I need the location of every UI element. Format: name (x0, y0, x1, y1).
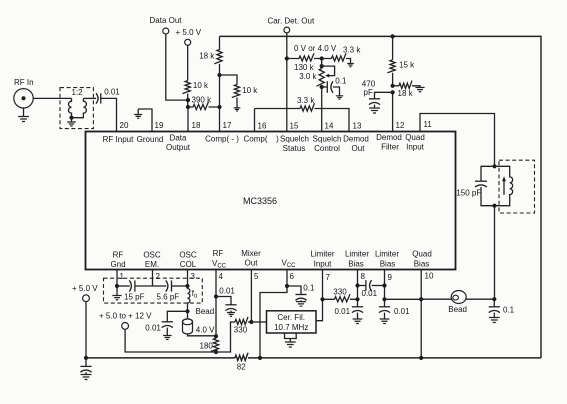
node cardet/130k (285, 56, 289, 60)
svg-text:Out: Out (352, 144, 366, 153)
svg-text:Status: Status (283, 144, 306, 153)
svg-text:330: 330 (234, 325, 248, 334)
op IC U1 MC3356 outline (86, 132, 456, 270)
svg-text:6: 6 (290, 272, 295, 281)
ground (pin 19) (134, 109, 142, 118)
svg-text:15 pF: 15 pF (124, 292, 145, 301)
terminal +5.0 V (bottom) (72, 284, 98, 302)
capacitor C7 5.6 pF (153, 280, 188, 301)
potentiometer R8 3.0 k (299, 59, 334, 88)
svg-text:3: 3 (191, 272, 196, 281)
pin 14 Squelch Control (313, 122, 342, 154)
capacitor C8 0.01 (osc supply) (145, 311, 187, 335)
svg-text:12: 12 (396, 121, 405, 130)
node pot wiper top (320, 64, 324, 68)
svg-text:Gnd: Gnd (110, 260, 125, 269)
svg-text:Limiter: Limiter (345, 250, 369, 259)
svg-text:17: 17 (223, 121, 232, 130)
node top rail / 15 k (391, 34, 395, 38)
wire pin17 column (219, 75, 221, 107)
capacitor C10 0.1 (Vcc) (287, 284, 315, 301)
label 1:2 (72, 88, 84, 97)
label Bead (196, 307, 215, 316)
svg-text:15 k: 15 k (399, 61, 415, 70)
ferrite bead FB2 (448, 291, 467, 315)
svg-text:COL: COL (180, 260, 197, 269)
ground (C10) (296, 302, 306, 307)
resistor R10 15 k (387, 36, 415, 85)
node pot bottom / 0.1 cap (320, 85, 324, 89)
ground (C9) (227, 313, 235, 317)
ground (FL1) (285, 342, 296, 347)
svg-text:4: 4 (219, 272, 224, 281)
svg-text:3.3 k: 3.3 k (343, 46, 361, 55)
svg-text:10: 10 (425, 272, 434, 281)
wire Car Det to pin 15 (286, 33, 288, 132)
wire +5-12V to node (125, 329, 216, 352)
label 4.0 V (196, 326, 215, 335)
svg-text:Bead: Bead (448, 305, 467, 314)
node pin 7 (320, 297, 324, 301)
ground (C14) (489, 318, 500, 323)
ground (0.1 squelch) (336, 96, 343, 99)
label MC3356 (243, 196, 277, 206)
svg-text:Limiter: Limiter (310, 250, 334, 259)
node pin 3 / coil (185, 284, 189, 288)
ground (18 k demod) (415, 88, 424, 92)
ceramic filter FL1 box (267, 311, 317, 333)
pin 15 Squelch Status (280, 122, 309, 154)
svg-text:EM.: EM. (145, 260, 159, 269)
node 15k/18k (391, 84, 395, 88)
pin 16 Comp(+) (243, 109, 279, 144)
node rail pin10 (419, 356, 423, 360)
wire VCC top rail (220, 36, 542, 358)
svg-text:RF: RF (213, 249, 224, 258)
node pin 8 top (355, 283, 359, 287)
svg-text:Quad: Quad (412, 250, 432, 259)
svg-text:MC3356: MC3356 (243, 196, 277, 206)
svg-text:0.01: 0.01 (335, 307, 351, 316)
oscillator dashed box (104, 278, 203, 303)
node pin 9 lower (382, 297, 386, 301)
svg-text:1:2: 1:2 (72, 88, 84, 97)
svg-text:pF: pF (364, 88, 373, 97)
wire Data Out to pin 18 node (166, 34, 188, 100)
svg-text:Limiter: Limiter (375, 250, 399, 259)
pin 6 Vcc (282, 259, 297, 287)
resistor R7 3.3 k (squelch) (322, 46, 362, 64)
svg-text:+ 5.0 to + 12 V: + 5.0 to + 12 V (99, 312, 152, 321)
ground (RF In) (18, 108, 29, 122)
svg-text:19: 19 (155, 121, 164, 130)
svg-text:0.1: 0.1 (503, 305, 515, 314)
node tank bottom (492, 204, 496, 208)
terminal +5.0 to +12 V (99, 312, 152, 330)
svg-text:8: 8 (361, 272, 366, 281)
transformer T1 dashed box (60, 88, 93, 129)
svg-text:2: 2 (156, 272, 161, 281)
svg-text:Squelch: Squelch (280, 135, 309, 144)
svg-text:Filter: Filter (381, 143, 399, 152)
svg-text:Cer. Fil.: Cer. Fil. (277, 313, 305, 322)
pin 12 Demod Filter (376, 92, 405, 151)
capacitor C2 0.1 (squelch) (322, 77, 347, 96)
wire supply node to 330 (216, 322, 235, 352)
terminal Data Out (150, 16, 183, 34)
svg-text:0.01: 0.01 (219, 287, 235, 296)
wire pin4 mid (215, 297, 217, 339)
resistor R5 82 label (237, 363, 246, 372)
capacitor C11 0.01 (pins 8-9) (358, 280, 385, 298)
capacitor C6 15 pF (117, 280, 153, 301)
pin 18 Data Output (166, 107, 201, 152)
svg-text:15: 15 (290, 122, 299, 131)
node 130k/3.3k/pot (320, 56, 324, 60)
resistor R2 390 k (188, 96, 220, 110)
label 0 V or 4.0 V (294, 44, 337, 53)
pin 7 Limiter Input (310, 250, 334, 300)
svg-text:0.01: 0.01 (394, 307, 410, 316)
ground (C8) (163, 336, 172, 340)
node pin17/10k branch (217, 73, 221, 77)
terminal +5.0 V (data) (176, 28, 202, 45)
wire pot to pin 14 (321, 87, 323, 132)
wire pin9 to pin10 column (385, 298, 422, 300)
ground (C12) (353, 319, 363, 324)
svg-text:0.1: 0.1 (303, 284, 315, 293)
svg-text:RF: RF (113, 251, 124, 260)
transformer T1 primary winding (69, 98, 72, 117)
capacitor C3 470 pF (362, 80, 393, 108)
pin 9 Limiter Bias (375, 250, 399, 300)
svg-text:9: 9 (388, 273, 393, 282)
pin 20 RF Input (103, 121, 134, 144)
pin 13 Demod Out (343, 122, 369, 154)
node pin4 / C9 (214, 294, 218, 298)
wire transformer to C1 (83, 97, 96, 99)
svg-text:82: 82 (237, 363, 246, 372)
terminal Car. Det. Out (268, 17, 315, 33)
pin 2 OSC EM (143, 251, 161, 287)
svg-text:Quad: Quad (405, 133, 425, 142)
svg-text:16: 16 (258, 122, 267, 131)
svg-text:10.7 MHz: 10.7 MHz (274, 323, 308, 332)
capacitor C9 0.01 (RF Vcc) (216, 287, 237, 313)
svg-text:OSC: OSC (179, 251, 197, 260)
svg-text:7: 7 (326, 273, 331, 282)
pin 3 OSC COL (179, 251, 197, 287)
node 470 pF (391, 90, 395, 94)
svg-text:18: 18 (192, 121, 201, 130)
ferrite bead FB1 (183, 311, 217, 336)
node 4.0V / pin4 (214, 334, 218, 338)
resistor R6 130 k (287, 53, 322, 72)
svg-text:14: 14 (325, 122, 334, 131)
svg-text:4.0 V: 4.0 V (196, 326, 215, 335)
ground (transformer) (67, 118, 76, 126)
pin 8 Limiter Bias (345, 250, 369, 300)
svg-text:OSC: OSC (143, 251, 161, 260)
node rail pin6 (258, 356, 262, 360)
node pin 1 / 15 pF (115, 284, 119, 288)
svg-text:3.3 k: 3.3 k (297, 96, 315, 105)
svg-text:Car. Det. Out: Car. Det. Out (268, 17, 315, 26)
svg-text:+ 5.0 V: + 5.0 V (176, 28, 202, 37)
svg-text:Comp(: Comp( (243, 135, 267, 144)
pin 19 Ground (137, 109, 164, 144)
wire tank to bead node (494, 206, 496, 300)
svg-text:390 k: 390 k (192, 96, 213, 105)
wire pin6 to rail (260, 286, 287, 358)
svg-text:Ground: Ground (137, 135, 164, 144)
svg-text:Data: Data (170, 134, 187, 143)
wire mixer node to FL1 (251, 321, 266, 323)
resistor R13 330 (mixer) (234, 317, 252, 335)
svg-text:Input: Input (406, 143, 425, 152)
node 180 / supply (214, 350, 218, 354)
svg-text:Out: Out (245, 259, 259, 268)
svg-text:20: 20 (120, 121, 129, 130)
capacitor C13 0.01 (pin 9) (379, 299, 410, 319)
ground (470 pF) (369, 108, 380, 113)
ground (pin 1) (112, 286, 121, 300)
capacitor C14 0.1 (quad) (489, 299, 515, 317)
wire C1 to pin 20 (101, 98, 117, 131)
capacitor C12 0.01 (pin 8) (335, 299, 364, 319)
svg-text:10 k: 10 k (242, 86, 258, 95)
ground (3.3 k squelch) (347, 64, 354, 67)
wire +5V to rail (85, 302, 87, 358)
svg-text:Data Out: Data Out (150, 16, 183, 25)
node rail +5V (84, 356, 88, 360)
resistor R4 10 k (comp) (220, 75, 259, 108)
node pin 8 lower (355, 297, 359, 301)
node pin18/dataout (186, 98, 190, 102)
inductor L2 fo coil (188, 286, 199, 311)
svg-text:Control: Control (314, 144, 340, 153)
ground (supply bypass) (81, 375, 92, 380)
svg-text:Mixer: Mixer (241, 249, 261, 258)
svg-text:Demod: Demod (376, 133, 402, 142)
ground (C13) (380, 319, 390, 324)
svg-text:): ) (276, 135, 279, 144)
capacitor C4 150 pF (456, 166, 494, 205)
node pin17/390k (217, 105, 221, 109)
svg-text:Bias: Bias (414, 260, 430, 269)
tank dashed box (499, 160, 535, 213)
node pin 9 top (382, 283, 386, 287)
node mixer out (249, 320, 253, 324)
svg-text:130 k: 130 k (294, 63, 315, 72)
inductor L1 quad coil (495, 166, 513, 205)
svg-text:3.0 k: 3.0 k (299, 72, 317, 81)
svg-text:Bias: Bias (348, 260, 364, 269)
svg-text:10 k: 10 k (193, 81, 209, 90)
pin 4 RF Vcc (212, 249, 227, 297)
svg-text:330: 330 (333, 288, 347, 297)
svg-text:0.1: 0.1 (335, 77, 347, 86)
pin 10 Quad Bias (412, 250, 434, 359)
svg-text:RF Input: RF Input (103, 135, 134, 144)
svg-text:180: 180 (200, 342, 214, 351)
svg-text:0.01: 0.01 (362, 289, 378, 298)
svg-text:Output: Output (166, 143, 191, 152)
wire VCC bottom rail (86, 353, 541, 361)
node bead top (185, 309, 189, 313)
svg-text:11: 11 (424, 120, 433, 129)
svg-text:Bias: Bias (380, 260, 396, 269)
pin 11 Quad Input wire (405, 114, 494, 167)
capacitor C1 0.01 (RF input) (96, 87, 120, 103)
svg-text:Demod: Demod (343, 135, 369, 144)
node pin18/390k (186, 105, 190, 109)
svg-text:Input: Input (314, 260, 333, 269)
svg-text:18 k: 18 k (398, 89, 414, 98)
ground (10 k comp) (234, 108, 241, 111)
resistor R9 3.3 k (comp to demod) (255, 96, 350, 132)
svg-text:Bead: Bead (196, 307, 215, 316)
node pin10/bead wire (419, 297, 423, 301)
resistor R11 18 k (demod) (393, 81, 420, 98)
svg-text:13: 13 (353, 122, 362, 131)
svg-text:1: 1 (120, 272, 125, 281)
resistor R3 18 k (199, 36, 222, 75)
svg-text:+ 5.0 V: + 5.0 V (72, 284, 98, 293)
resistor R14 330 (limiter) (323, 288, 358, 302)
pin 1 RF Gnd (110, 251, 125, 287)
svg-text:150 pF: 150 pF (456, 188, 481, 197)
node transformer common (69, 116, 73, 120)
svg-text:0.01: 0.01 (104, 87, 120, 96)
wire bead (quad bias) (421, 298, 494, 300)
transformer T1 secondary winding (72, 98, 87, 117)
resistor R1 10 k (182, 45, 209, 107)
node tank top (492, 164, 496, 168)
resistor R12 180 (200, 338, 219, 351)
node bead/C14 (492, 297, 496, 301)
FL1 ground tab (285, 333, 297, 342)
wire RF In to transformer (33, 97, 71, 99)
svg-text:5: 5 (254, 272, 259, 281)
svg-text:0.01: 0.01 (145, 323, 161, 332)
connector J1 RF In (14, 78, 34, 108)
svg-text:0 V or 4.0 V: 0 V or 4.0 V (294, 44, 337, 53)
wire FL1 to pin 7 node (316, 299, 323, 320)
svg-text:Squelch: Squelch (313, 135, 342, 144)
svg-text:5.6 pF: 5.6 pF (157, 292, 180, 301)
pin 17 Comp(-) (205, 107, 239, 144)
capacitor C5 (supply bypass) (80, 358, 91, 374)
node pin 6 Vcc (285, 284, 289, 288)
svg-text:Comp( - ): Comp( - ) (205, 135, 239, 144)
svg-text:RF In: RF In (14, 78, 34, 87)
svg-text:18 k: 18 k (199, 52, 215, 61)
pin 5 Mixer Out (241, 249, 261, 322)
